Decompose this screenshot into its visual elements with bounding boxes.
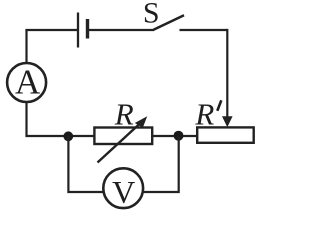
- arrowhead: slider arrow pointing down onto R': [222, 116, 233, 127]
- wire: R box to R' box: [152, 135, 197, 137]
- junction node: left dot: [63, 131, 73, 141]
- wire: switch right contact to top-right corner: [180, 29, 228, 31]
- svg-text:R: R: [194, 96, 214, 131]
- ammeter A: [7, 62, 46, 102]
- svg-text:S: S: [143, 0, 160, 29]
- wire: ammeter bottom down to bottom-left corner then right to R: [27, 103, 95, 137]
- svg-text:V: V: [112, 174, 135, 210]
- wire: right vertical from top-right corner down to arrow: [226, 29, 228, 118]
- wire: top-left horizontal from corner to battery positive plate: [25, 29, 77, 31]
- label R': [194, 96, 221, 131]
- battery positive plate (long): [77, 13, 79, 48]
- svg-text:R: R: [114, 96, 134, 131]
- svg-text:A: A: [15, 62, 41, 101]
- junction node: right dot: [174, 131, 184, 141]
- resistor R box (rheostat): [94, 128, 152, 145]
- wire: battery to switch left contact: [89, 29, 154, 31]
- wire: left dot down then right to voltmeter: [68, 136, 102, 192]
- battery negative plate (short thick): [86, 19, 89, 39]
- voltmeter V: [103, 168, 143, 210]
- rheostat arrow through R: [98, 116, 148, 162]
- resistor R' box: [197, 127, 254, 142]
- wire: voltmeter right to corner then up to right dot: [144, 136, 179, 192]
- wire: left vertical from top-left corner down to ammeter top: [25, 30, 27, 63]
- switch S blade (open): [154, 15, 185, 29]
